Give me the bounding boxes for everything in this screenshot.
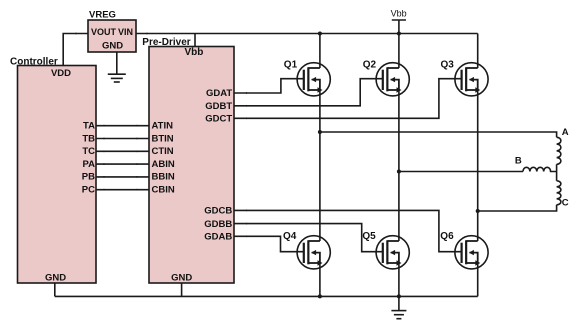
wire Vbb top rail (136, 33, 478, 35)
svg-text:VREG: VREG (89, 10, 116, 21)
wire GDCT to Q3 gate (234, 79, 462, 119)
svg-text:CTIN: CTIN (152, 146, 174, 157)
wire column B bottom source (398, 263, 400, 296)
junction rail-Q1 (318, 32, 322, 36)
voltage regulator U-VREG (88, 20, 136, 52)
svg-text:Q5: Q5 (362, 231, 376, 242)
wire TC-CTIN (96, 150, 149, 152)
wire GDBT to Q2 gate (234, 79, 383, 106)
svg-text:A: A (562, 127, 569, 138)
winding A (557, 137, 561, 164)
winding C (557, 181, 561, 205)
svg-text:Q2: Q2 (363, 59, 377, 70)
wire pre-driver GND pin (181, 283, 183, 296)
transistor Q5 (376, 236, 409, 269)
svg-text:GDCT: GDCT (205, 114, 232, 125)
junction rail-Q5 (397, 294, 401, 298)
ground (below VREG) (108, 52, 126, 82)
wire drain column A top (319, 34, 321, 69)
svg-text:Q4: Q4 (283, 231, 297, 242)
svg-text:VDD: VDD (51, 68, 71, 79)
svg-text:PC: PC (82, 185, 95, 196)
pre-driver block U-PreDriver (149, 47, 234, 284)
wire GDAT to Q1 gate (234, 79, 304, 93)
svg-text:GND: GND (45, 273, 66, 284)
wire phase B (399, 171, 523, 173)
wire TB-BTIN (96, 138, 149, 140)
svg-text:TC: TC (82, 146, 95, 157)
ground (main) (391, 296, 406, 318)
wire column C mid (top source to bottom drain) (477, 90, 479, 241)
svg-text:ATIN: ATIN (152, 121, 174, 132)
wire PB-BBIN (96, 176, 149, 178)
wire column B mid (top source to bottom drain) (398, 90, 400, 241)
svg-text:VIN: VIN (118, 27, 133, 37)
wire GDBB to Q5 gate (234, 224, 383, 252)
svg-text:VOUT: VOUT (91, 27, 117, 37)
junction phase-C (476, 209, 480, 213)
svg-text:TA: TA (83, 121, 95, 132)
svg-text:ABIN: ABIN (152, 159, 175, 170)
svg-text:B: B (515, 155, 522, 166)
transistor Q4 (297, 236, 330, 269)
junction phase-A (318, 130, 322, 134)
svg-text:PB: PB (82, 172, 95, 183)
wire drain column C top (477, 34, 479, 69)
wire drain column B top (398, 34, 400, 69)
transistor Q2 (376, 63, 409, 96)
wire pre-driver Vbb pin (194, 34, 196, 47)
wire GDAB to Q4 gate (234, 236, 304, 251)
transistor Q1 (297, 63, 330, 96)
svg-text:BTIN: BTIN (152, 133, 174, 144)
wire controller GND pin (54, 283, 56, 296)
wire wye center (556, 164, 558, 181)
wire phase C (478, 205, 557, 211)
svg-text:CBIN: CBIN (152, 185, 175, 196)
svg-text:Vbb: Vbb (184, 47, 203, 58)
wire TA-ATIN (96, 125, 149, 127)
svg-text:Q3: Q3 (441, 59, 455, 70)
junction rail-Q4 (318, 294, 322, 298)
power symbol Vbb (392, 20, 406, 34)
wire GDCB to Q6 gate (234, 210, 462, 251)
junction rail-Q2 (397, 32, 401, 36)
svg-text:PA: PA (83, 159, 96, 170)
svg-text:GND: GND (102, 41, 123, 52)
svg-text:GDCB: GDCB (204, 206, 232, 217)
svg-text:GDBB: GDBB (204, 219, 232, 230)
svg-text:GDBT: GDBT (205, 101, 232, 112)
wire ground rail (55, 295, 478, 297)
controller block U-Controller (18, 66, 97, 284)
wire PA-ABIN (96, 163, 149, 165)
svg-text:C: C (562, 198, 569, 209)
wire phase A (320, 132, 557, 137)
wire column C bottom source (477, 263, 479, 296)
wire column A bottom source (319, 263, 321, 296)
svg-text:Q1: Q1 (284, 59, 298, 70)
transistor Q3 (455, 63, 488, 96)
svg-text:GND: GND (171, 273, 192, 284)
wire PC-CBIN (96, 189, 149, 191)
svg-text:Q6: Q6 (440, 231, 454, 242)
svg-text:Vbb: Vbb (391, 8, 407, 18)
svg-text:GDAT: GDAT (206, 88, 232, 99)
junction phase-B (397, 170, 401, 174)
wire VREG VOUT to controller VDD (63, 34, 88, 66)
svg-text:GDAB: GDAB (204, 232, 232, 243)
svg-text:BBIN: BBIN (152, 172, 175, 183)
svg-text:TB: TB (82, 133, 95, 144)
wire column A mid (top source to bottom drain) (319, 90, 321, 241)
winding B (523, 167, 557, 171)
svg-text:Controller: Controller (10, 57, 58, 68)
transistor Q6 (455, 236, 488, 269)
